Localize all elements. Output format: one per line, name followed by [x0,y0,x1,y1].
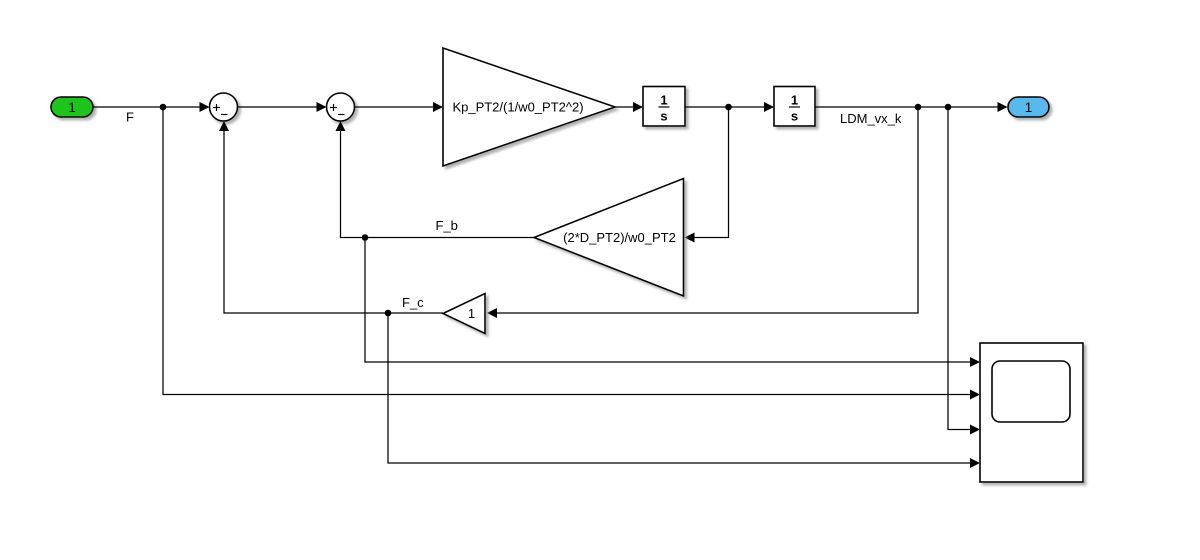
arrowhead into Scope port1 [970,357,980,367]
arrowhead into Integrator1 [633,102,643,112]
wire Sum1 to Sum2 [238,106,318,108]
arrowhead into Sum2 bottom [336,121,346,131]
wire Gain1 to Integrator1 [615,106,634,108]
arrowhead into Gain1 [433,102,443,112]
gain Gain1 Kp_PT2/(1/w0_PT2^2) [443,48,615,166]
junction F_c [385,310,392,317]
junction F_b [362,234,369,241]
svg-text:F: F [126,110,134,125]
wire Integrator2 to Out1 [815,106,999,108]
wire F_b tap to Scope port1 [365,238,972,363]
wire Sum2 to Gain1 [355,106,435,108]
svg-text:s: s [660,109,667,124]
wire Gain3 output F_c to Sum1 [224,130,443,313]
outport Out1 (blue) [1008,97,1049,117]
arrowhead into Gain3 [487,308,497,318]
svg-text:Kp_PT2/(1/w0_PT2^2): Kp_PT2/(1/w0_PT2^2) [452,100,583,115]
svg-text:s: s [791,109,798,124]
wire LDM tap to Gain3 [496,107,918,313]
inport In1 (green) [51,97,93,117]
junction after Integrator1 [725,104,732,111]
arrowhead into Sum2 [317,102,327,112]
gain Gain2 (2*D_PT2)/w0_PT2 [534,179,684,297]
svg-text:F_c: F_c [402,295,424,310]
arrowhead into Gain2 [685,233,695,243]
arrowhead into Sum1 [200,102,210,112]
integrator Integrator1 1/s [643,87,685,127]
scope Scope [980,343,1083,482]
wire Integrator1 tap to Gain2 [693,107,729,238]
sum block Sum2 [327,93,355,121]
arrowhead into Scope port4 [970,458,980,468]
wire Integrator1 to Integrator2 [685,106,765,108]
Sum1 minus sign [221,114,228,116]
svg-text:1: 1 [1025,100,1033,115]
arrowhead into Out1 [998,102,1008,112]
wire F_c tap to Scope port4 [388,313,972,463]
integrator Integrator2 1/s [774,87,815,127]
junction LDM b [945,104,952,111]
svg-text:F_b: F_b [436,218,458,233]
arrowhead into Integrator2 [764,102,774,112]
junction LDM a [915,104,922,111]
Sum2 minus sign [338,114,345,116]
sum block Sum1 [210,93,238,121]
svg-text:1: 1 [791,93,798,108]
wire In1 to Sum1 [93,106,200,108]
arrowhead into Scope port2 [970,390,980,400]
svg-text:1: 1 [68,100,76,115]
svg-text:1: 1 [660,93,667,108]
wire Gain2 output F_b to Sum2 [341,130,535,238]
scope screen [992,361,1070,422]
Sum1 plus sign [213,104,220,111]
svg-text:1: 1 [468,306,475,321]
Sum2 plus sign [330,104,337,111]
svg-text:(2*D_PT2)/w0_PT2: (2*D_PT2)/w0_PT2 [563,230,676,245]
arrowhead into Scope port3 [970,425,980,435]
svg-text:LDM_vx_k: LDM_vx_k [840,111,902,126]
gain Gain3 value 1 [443,294,485,334]
junction F [160,104,167,111]
wire F tap to Scope port2 [163,107,972,395]
wire LDM tap b to Scope port3 [948,107,972,430]
arrowhead into Sum1 bottom [219,121,229,131]
